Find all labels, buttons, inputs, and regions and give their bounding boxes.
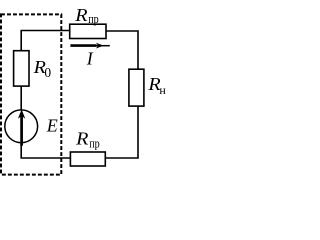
wire: circle top to R0 bottom [20, 86, 22, 110]
svg-text:I: I [86, 49, 94, 69]
svg-text:R: R [75, 128, 88, 148]
svg-text:0: 0 [44, 65, 51, 80]
resistor Rn (load) [129, 69, 144, 106]
dashed source boundary box [1, 14, 61, 174]
wire: Rn bottom down, left to bottom resistor [105, 106, 138, 158]
EMF source E (circle) [5, 110, 38, 143]
svg-text:R: R [74, 5, 87, 25]
resistor R_pr bottom [70, 152, 105, 166]
svg-text:E: E [46, 115, 58, 135]
wire: R0 top up and right to top resistor [21, 31, 70, 51]
current arrow I [70, 44, 96, 47]
svg-text:пр: пр [88, 12, 99, 26]
svg-text:пр: пр [89, 136, 100, 150]
resistor R_pr top [70, 24, 106, 38]
EMF arrow [20, 116, 23, 146]
wire: top resistor right to corner and down to Rn [106, 31, 138, 69]
wire: bottom resistor left to EMF branch [21, 143, 70, 158]
resistor R0 [14, 51, 29, 86]
svg-text:н: н [159, 83, 166, 97]
